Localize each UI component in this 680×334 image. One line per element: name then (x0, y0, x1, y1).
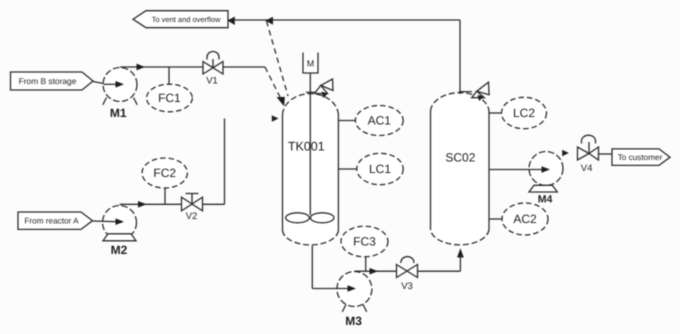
svg-text:M4: M4 (538, 194, 553, 206)
svg-text:V3: V3 (401, 281, 413, 292)
svg-text:AC2: AC2 (513, 212, 537, 226)
svg-text:SC02: SC02 (445, 151, 475, 165)
svg-text:From B storage: From B storage (19, 76, 77, 86)
svg-text:M2: M2 (111, 243, 128, 257)
svg-text:V2: V2 (186, 211, 198, 222)
svg-text:M3: M3 (345, 314, 362, 328)
svg-text:AC1: AC1 (368, 114, 392, 128)
svg-text:V1: V1 (206, 76, 218, 87)
svg-text:FC3: FC3 (353, 235, 376, 249)
svg-text:From reactor A: From reactor A (24, 217, 79, 226)
svg-text:LC1: LC1 (369, 162, 391, 176)
svg-text:LC2: LC2 (513, 106, 535, 120)
svg-text:M1: M1 (110, 106, 127, 120)
svg-text:V4: V4 (581, 163, 593, 174)
svg-text:To vent and overflow: To vent and overflow (152, 15, 221, 24)
svg-text:M: M (307, 59, 315, 69)
svg-text:FC1: FC1 (158, 91, 181, 105)
svg-text:TK001: TK001 (288, 139, 325, 153)
svg-text:To customer: To customer (618, 153, 663, 162)
svg-text:FC2: FC2 (153, 166, 176, 180)
